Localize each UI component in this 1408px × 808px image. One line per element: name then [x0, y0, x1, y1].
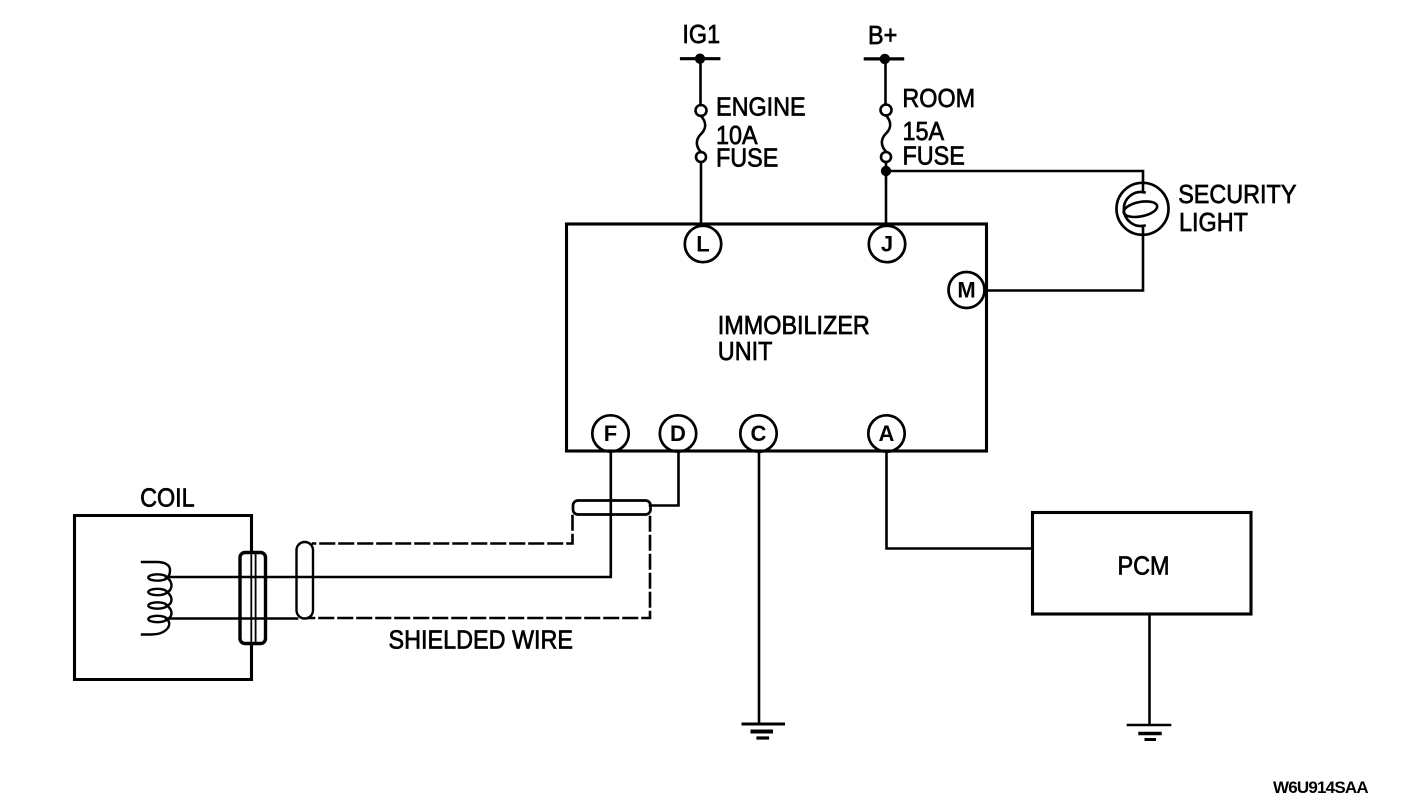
pin J — [869, 226, 905, 262]
junction node at fuse F2 output — [881, 166, 891, 176]
ground (under PCM) — [1128, 725, 1170, 740]
pin D — [660, 415, 696, 451]
wire coil bottom lead to connector — [166, 617, 297, 620]
svg-text:B+: B+ — [868, 22, 897, 50]
svg-text:F: F — [604, 421, 617, 446]
label SECURITY LIGHT — [1178, 181, 1296, 237]
svg-text:SECURITY: SECURITY — [1178, 181, 1296, 209]
label ROOM 15A FUSE — [902, 85, 975, 170]
svg-text:ENGINE: ENGINE — [716, 94, 806, 122]
wire fuse F1 to pin L — [700, 162, 703, 225]
svg-text:L: L — [696, 232, 709, 257]
wire pin F down and left to coil (shielded core) — [166, 451, 611, 577]
PCM U2 — [1033, 513, 1252, 615]
label ENGINE 10A FUSE — [716, 94, 806, 173]
wire pin A to PCM — [887, 451, 1033, 549]
wire pin D to shield drain — [650, 451, 679, 506]
svg-text:UNIT: UNIT — [718, 338, 773, 366]
pin M — [949, 272, 985, 308]
svg-text:LIGHT: LIGHT — [1179, 209, 1248, 237]
pin F — [592, 415, 628, 451]
svg-text:J: J — [881, 232, 893, 257]
wire junction to pin J — [885, 162, 888, 225]
svg-text:M: M — [957, 278, 975, 303]
wire B+ to fuse F2 — [884, 60, 887, 105]
immobilizer unit U1 box — [567, 224, 987, 451]
fuse F1 (ENGINE 10A) — [696, 105, 707, 162]
wire junction to security light — [886, 171, 1143, 192]
svg-text:FUSE: FUSE — [903, 142, 965, 170]
pin A — [868, 415, 904, 451]
inductor (coil winding) — [142, 562, 172, 635]
svg-text:D: D — [670, 421, 686, 446]
svg-text:A: A — [879, 421, 895, 446]
svg-text:SHIELDED WIRE: SHIELDED WIRE — [389, 626, 574, 654]
svg-text:W6U914SAA: W6U914SAA — [1273, 778, 1368, 797]
svg-text:COIL: COIL — [140, 484, 195, 512]
wire pin C to ground — [758, 451, 761, 724]
svg-text:IMMOBILIZER: IMMOBILIZER — [718, 312, 870, 340]
node B+ — [865, 22, 902, 64]
fuse F2 (ROOM 15A) — [881, 105, 892, 163]
ferrite bead / shield termination pill — [573, 501, 651, 515]
svg-text:IG1: IG1 — [682, 21, 720, 49]
svg-text:ROOM: ROOM — [902, 85, 975, 113]
pin L — [685, 226, 721, 262]
wire IG1 to fuse F1 — [699, 60, 702, 105]
wire PCM to ground — [1148, 614, 1151, 724]
shield (dashed outline) — [308, 516, 650, 618]
ground (under C) — [743, 724, 784, 738]
connector (coil side, double) — [240, 553, 266, 644]
svg-text:C: C — [751, 421, 767, 446]
coil box — [75, 484, 252, 679]
lamp: security light — [1117, 183, 1169, 235]
pin C — [740, 415, 776, 451]
connector (shield side pill) — [297, 542, 314, 619]
wire lamp to pin M — [983, 226, 1143, 291]
svg-text:FUSE: FUSE — [716, 144, 778, 172]
node IG1 — [682, 21, 721, 64]
svg-text:PCM: PCM — [1118, 552, 1170, 580]
